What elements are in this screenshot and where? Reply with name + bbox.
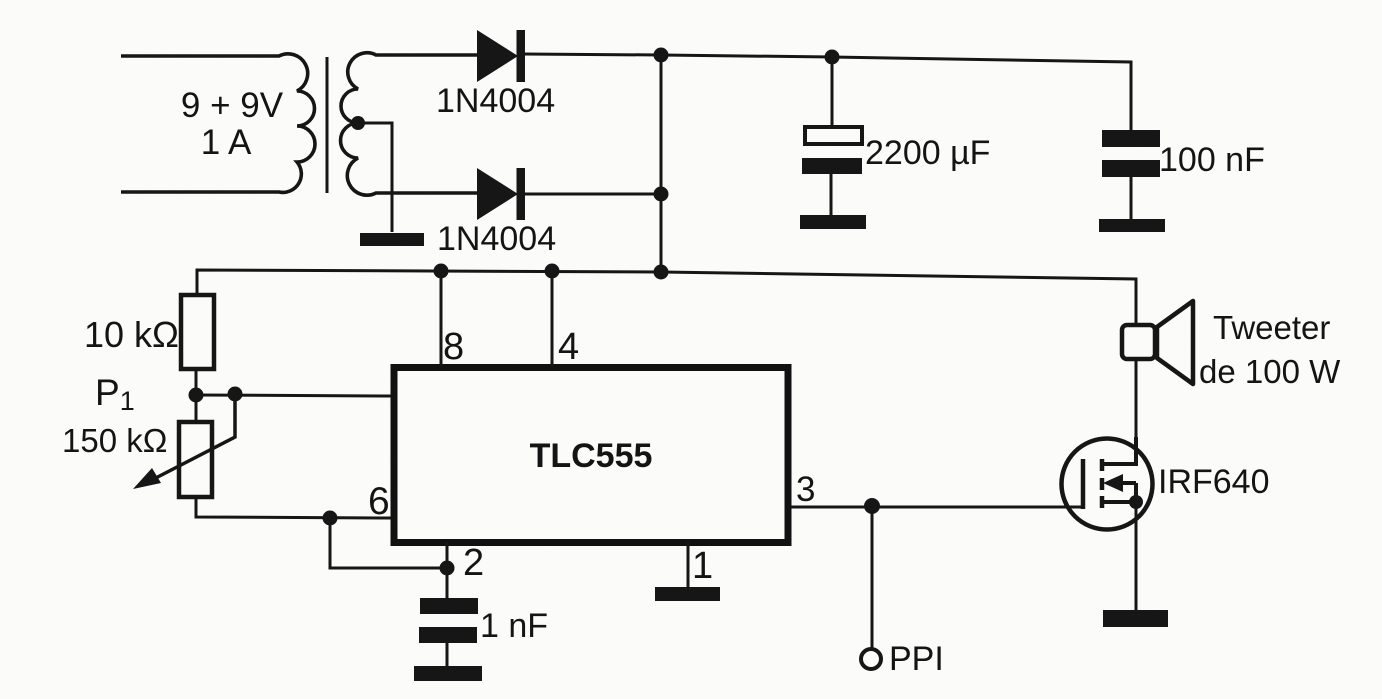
diode D2 1N4004 (bottom): [477, 168, 525, 220]
wire P1 bottom to pin6: [196, 497, 391, 518]
capacitor C3 plate 2: [419, 627, 477, 643]
wire pin6 node down to pin2: [330, 518, 447, 568]
Q1 channel segment top: [1100, 459, 1105, 471]
node dot pin2: [440, 561, 455, 576]
wire diode D1 cathode to node A: [523, 54, 661, 55]
diode D1 1N4004 (top): [477, 30, 525, 82]
node dot Vcc at bus: [654, 265, 669, 280]
capacitor C3 1nF plate 1: [420, 598, 478, 614]
node dot PPI tap: [864, 498, 880, 514]
capacitor C2 plate 2: [1102, 160, 1160, 177]
ground under C3: [414, 666, 482, 681]
speaker horn: [1157, 301, 1193, 384]
capacitor C1 2200uF electrolytic positive plate: [805, 127, 862, 144]
wire node to IC left (pins 7/5 row): [196, 395, 391, 396]
wire R1 to P1: [195, 369, 198, 422]
wire pin 3 to gate: [791, 506, 1083, 509]
transformer T1 primary winding: [121, 54, 315, 193]
ground pin 1: [655, 587, 720, 601]
wire down to PPI terminal: [871, 507, 874, 649]
center tap wire: [358, 123, 392, 232]
potentiometer wiper wire: [148, 394, 235, 482]
wire pin 8: [440, 271, 443, 367]
wire C3 to ground: [446, 643, 449, 667]
transistor Q1 IRF640 circle: [1062, 439, 1153, 530]
PPI open terminal: [861, 649, 881, 669]
Q1 gate bar: [1081, 459, 1086, 509]
node dot Vcc at pin4: [545, 264, 560, 279]
wire pin 2: [446, 541, 449, 598]
potentiometer wiper arrowhead: [133, 468, 161, 489]
wire from top rail down to C1: [831, 57, 834, 126]
Q1 source link: [1102, 483, 1136, 502]
ground under C1: [800, 215, 866, 229]
wire C2 to ground: [1130, 177, 1133, 220]
speaker driver box: [1122, 325, 1155, 359]
capacitor C2 100nF plate 1: [1102, 130, 1160, 147]
node A dot: [654, 48, 669, 63]
center tap node dot: [351, 116, 365, 130]
capacitor C1 negative plate: [802, 158, 862, 174]
wire vertical bus from node A down to Vcc rail: [660, 55, 663, 272]
Q1 body arrowhead: [1103, 474, 1123, 492]
ground under transformer: [360, 233, 424, 246]
wire pin 1: [687, 541, 690, 588]
Q1 source node dot: [1129, 495, 1143, 509]
paper scan noise: [0, 0, 1, 1]
resistor R1 10k body: [181, 295, 214, 369]
transformer T1 core: [326, 57, 329, 193]
wire pin 4: [551, 271, 554, 367]
node dot below R1: [189, 388, 204, 403]
node dot Vcc at pin8: [434, 264, 449, 279]
Q1 body arrow line: [1120, 481, 1136, 485]
wire diode D2 cathode to vertical bus: [523, 193, 661, 196]
node dot wiper junction: [228, 387, 243, 402]
transformer label 9 + 9V / 1 A: [181, 86, 284, 162]
wire drain up to speaker: [1135, 359, 1138, 464]
potentiometer P1 body: [179, 422, 212, 497]
wire Vcc rail: [197, 270, 1136, 325]
ground under C2: [1099, 219, 1165, 232]
Q1 drain stub: [1102, 437, 1136, 464]
wire source to ground: [1135, 502, 1138, 611]
wire C1 to ground: [830, 174, 833, 216]
Q1 channel segment bottom: [1100, 496, 1105, 508]
transformer T1 secondary winding: [341, 53, 477, 195]
wire top rail: [661, 55, 1131, 130]
node dot at 2200uF tap: [825, 50, 840, 65]
node dot at bottom diode junction: [654, 187, 669, 202]
node dot pin6 branch: [323, 511, 338, 526]
Q1 channel segment middle: [1100, 478, 1105, 490]
IC U1 TLC555 box: [394, 368, 788, 543]
ground under Q1: [1103, 610, 1168, 627]
